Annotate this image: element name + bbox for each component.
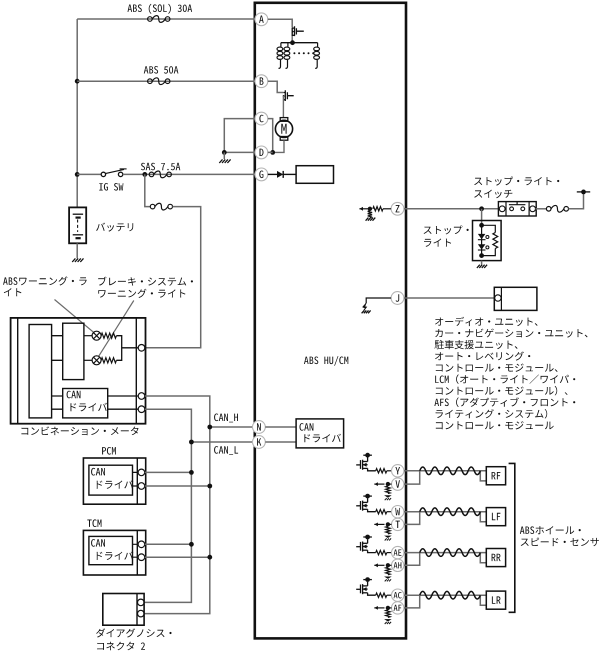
transistor sensor FET AC (356, 584, 367, 594)
terminal Z (391, 202, 404, 215)
CAN driver box in PCM (89, 465, 133, 495)
wire motor minus to D junction (273, 140, 284, 152)
sensor box RF (486, 467, 505, 485)
junction bus / IG SW wire (75, 172, 80, 177)
wire solenoid common rail (281, 42, 318, 44)
resistor sensor AC (376, 593, 387, 597)
junction solenoid rail (290, 40, 295, 45)
resistor Z input (373, 207, 383, 211)
TCM box (83, 530, 145, 575)
label ABS wheel speed sensor ABSホイール・スピード・センサ (520, 526, 581, 534)
bracket ABS wheel speed sensors (509, 463, 515, 612)
wire branch to stop light (481, 209, 483, 226)
stop light box (473, 221, 502, 261)
label audio unit list (435, 317, 537, 326)
wire PCM CAN_H (145, 471, 192, 473)
junction stop light top (479, 223, 484, 228)
arrow internal AF (374, 607, 384, 609)
wire resistor to terminal AC (387, 594, 392, 596)
wire K to CAN driver (265, 441, 296, 443)
meter pin circle CAN_H (138, 393, 145, 400)
arrow internal T (374, 523, 384, 525)
power tap sensor AE (367, 539, 369, 543)
wire battery to ground (76, 243, 78, 258)
label CAN driver (ABS) (300, 423, 314, 431)
control block rectangle (296, 166, 333, 184)
resistor brake warning lamp (101, 358, 116, 363)
twisted pair coil WT (420, 508, 481, 516)
ground arrow V (384, 495, 392, 497)
wire ABS 50A feed to terminal B (77, 80, 255, 82)
TCM right rail (136, 530, 138, 575)
wire CAN_L to terminal K (191, 441, 252, 443)
junction TCM CAN_H (189, 542, 194, 547)
wire terminal C to external ground (224, 119, 255, 153)
ground C/D external (219, 159, 230, 163)
wire FET to resistor AC (368, 593, 376, 595)
terminal AE (392, 546, 404, 558)
wire CAN_L from meter to bus (144, 409, 191, 602)
label TCM (87, 519, 101, 527)
wire resistor to terminal Y (387, 470, 392, 472)
wire J internal (366, 298, 391, 303)
terminal J (391, 292, 404, 305)
terminal W (392, 506, 404, 518)
meter inner block tall (29, 325, 51, 418)
label PCM (102, 447, 116, 455)
resistor ABS warning lamp (101, 333, 116, 338)
lamp ABS warning (84, 335, 92, 337)
wire N to CAN driver (265, 426, 296, 428)
resistor V to ground (386, 486, 390, 494)
bulb stop light 1 (478, 234, 486, 239)
wire to ground below junction (223, 152, 225, 159)
wire J to audio unit box (404, 297, 494, 299)
wire TCM CAN_H (145, 543, 192, 545)
terminal D (255, 146, 268, 159)
junction protection AF (386, 606, 390, 610)
ground stop light (477, 265, 487, 268)
label CAN_L (214, 446, 238, 455)
wire FET to resistor AE (368, 550, 376, 552)
ground Z internal (366, 218, 376, 221)
wire meter CAN driver stubs (52, 396, 63, 409)
junction protection AH (386, 563, 390, 567)
junction bus / ABS 50A wire (75, 79, 80, 84)
ground battery (72, 258, 83, 262)
wire diode to control block (283, 173, 296, 175)
diagnosis connector 2 box (103, 594, 144, 626)
ground arrow AF (384, 619, 392, 621)
motor M (280, 118, 288, 122)
resistor sensor W (376, 510, 387, 514)
label diagnosis connector ダイアグノシス・コネクタ 2 (96, 628, 172, 637)
wire terminal A to solenoid FET (268, 19, 292, 27)
fuse meter 7.5A (150, 203, 172, 210)
terminal N (253, 421, 266, 434)
wire fuse to B+ tap (569, 192, 584, 209)
wire stop light internal rails (482, 225, 496, 255)
label battery バッテリ (96, 223, 133, 232)
label stop light switch ストップ・ライト・スイッチ (474, 177, 559, 186)
label CAN driver (PCM) (91, 468, 105, 476)
battery (69, 207, 86, 243)
solenoid coil n (317, 43, 319, 48)
terminal AH (392, 559, 404, 571)
wire CAN_H to terminal N (210, 426, 253, 428)
terminal K (253, 436, 266, 449)
wire FET to resistor Y (368, 468, 376, 470)
junction external ground node (222, 150, 227, 155)
terminal V (392, 478, 404, 490)
wire B+ feed to fuse ABS (SOL) 30A and terminal A (77, 18, 255, 20)
junction PCM CAN_L (207, 484, 212, 489)
junction SAS branch (142, 172, 147, 177)
label stop light ストップ・ライト (424, 225, 469, 234)
wire bus to IG SW (77, 173, 101, 175)
wire Z internal to resistor (383, 208, 391, 210)
transistor sensor FET AE (356, 542, 367, 552)
label brake system warning light ブレーキ・システム・ワーニング・ライト (98, 277, 193, 286)
label ABS warning light ABSワーニング・ライト (3, 276, 87, 285)
diagnosis connector rail (136, 594, 138, 626)
combination meter box (11, 318, 146, 424)
wire sensor pair cable W (404, 511, 486, 513)
wire FET source to solenoid rail (291, 36, 293, 43)
label SAS 7.5A (141, 163, 180, 171)
leader line ABS warning light to lamp (55, 300, 94, 333)
arrow internal V (374, 483, 384, 485)
wire IG SW to SAS fuse (123, 173, 255, 175)
stop light switch box (498, 202, 536, 216)
label ABS HU/CM (304, 356, 348, 366)
sensor box RR (486, 549, 505, 567)
resistor Z to ground (368, 211, 372, 218)
wire meter block links (52, 336, 63, 361)
power tap sensor Y (367, 457, 369, 461)
leader line brake warning light to lamp (99, 301, 134, 357)
transistor sensor FET Y (356, 460, 367, 470)
junction Z protection (368, 207, 372, 211)
label CAN_H (214, 414, 238, 423)
bulb stop light 2 (478, 244, 486, 249)
diode G (277, 171, 283, 178)
resistor sensor AE (376, 550, 387, 554)
CAN driver box in TCM (89, 536, 133, 564)
label combination meter コンビネーション・メータ (21, 427, 138, 436)
transistor solenoid FET (gate right) (292, 26, 304, 36)
combination meter right rail (135, 318, 137, 424)
wire FET to resistor W (368, 509, 376, 511)
junction PCM CAN_H (189, 470, 194, 475)
stop light switch pins (499, 206, 505, 212)
junction TCM CAN_L (207, 555, 212, 560)
twisted pair coil YV (420, 467, 481, 475)
twisted pair coil ACAF (420, 591, 481, 599)
label CAN driver (meter) (67, 391, 81, 399)
terminal B (255, 75, 268, 88)
PCM box (83, 458, 145, 504)
junction D node motor return (270, 150, 275, 155)
sensor box LR (486, 591, 505, 609)
arrow Z internal (359, 208, 370, 210)
wire stop light to ground (481, 261, 483, 265)
audio unit pin (495, 295, 501, 301)
meter inner block upper (63, 323, 84, 379)
CAN driver box in meter (63, 389, 108, 418)
terminal T (392, 518, 404, 530)
fuse ABS 50A (148, 78, 170, 85)
ABS HU/CM unit box (255, 3, 406, 639)
junction stop light branch (479, 206, 484, 211)
PCM pin circles (133, 472, 139, 486)
wire terminal C to D junction (inside) (268, 119, 273, 153)
arrow internal AH (374, 564, 384, 566)
terminal AC (392, 589, 404, 601)
diagnosis pin circles (138, 599, 145, 606)
switch IG SW (101, 172, 105, 176)
solenoid coil 2 (287, 43, 289, 48)
label ABS (SOL) 30A (128, 4, 193, 14)
fuse ABS (SOL) 30A (148, 16, 170, 23)
wire resistor to terminal AE (387, 552, 392, 554)
transistor motor FET (gate right) (283, 90, 293, 101)
wire lamps common to meter pin (116, 336, 138, 361)
wire TCM CAN_L (145, 556, 210, 558)
junction CAN_L / K (189, 440, 194, 445)
power tap B+ stop light (577, 191, 590, 193)
wire terminal G to diode (268, 173, 277, 175)
junction protection T (386, 522, 390, 526)
wire CAN_H from meter to bus (144, 396, 210, 614)
terminal Y (392, 465, 404, 477)
wire sensor pair cable AE (404, 552, 486, 554)
resistor sensor Y (376, 469, 387, 473)
terminal G (255, 168, 268, 181)
power tap sensor AC (367, 582, 369, 586)
wire FET to motor (282, 96, 284, 117)
label IG SW (99, 183, 123, 191)
wire terminal B to motor FET (268, 81, 283, 92)
ground arrow J internal (362, 303, 366, 308)
label ABS 50A (144, 66, 179, 74)
meter pin circle lamp feed (138, 345, 145, 352)
wire meter fuse to combination meter pin (145, 207, 201, 348)
PCM right rail (136, 458, 138, 504)
resistor T to ground (386, 526, 390, 534)
ground arrow T (384, 536, 392, 538)
wire switch to fuse (536, 208, 547, 210)
junction CAN_H / N (207, 425, 212, 430)
wire SAS junction down to meter fuse (145, 174, 151, 206)
wire resistor to terminal W (387, 511, 392, 513)
junction protection V (386, 482, 390, 486)
TCM pin circles (133, 544, 139, 557)
switch contacts stop light switch (510, 207, 514, 211)
terminal AF (392, 602, 404, 614)
wire terminal D to external ground (224, 151, 255, 153)
wire sensor pair cable AC (404, 594, 486, 596)
lamp brake system warning (84, 359, 92, 361)
audio unit box (494, 287, 537, 310)
CAN driver box in ABS unit (296, 419, 344, 448)
combination meter left rail (17, 318, 19, 424)
wire terminal D to junction (268, 151, 273, 153)
resistor AF to ground (386, 610, 390, 618)
wire PCM CAN_L (145, 485, 210, 487)
fuse SAS 7.5A (149, 171, 171, 178)
transistor sensor FET W (356, 501, 367, 511)
junction stop light bottom (479, 253, 484, 258)
wire Z to stop light switch (404, 208, 499, 210)
terminal A (255, 13, 268, 26)
fuse stop light (546, 205, 568, 212)
ground arrow AH (384, 577, 392, 579)
wire sensor pair cable Y (404, 470, 486, 472)
label CAN driver (TCM) (91, 539, 105, 547)
twisted pair coil AEAH (420, 549, 481, 557)
dotted continuation solenoids (293, 52, 295, 54)
power tap sensor W (367, 498, 369, 502)
sensor box LF (486, 508, 505, 526)
solenoid coil 1 (280, 43, 282, 48)
wire left vertical bus from fuse line down to battery (76, 19, 78, 207)
meter pin circle CAN_L (138, 406, 145, 413)
terminal C (255, 112, 268, 125)
resistor AH to ground (386, 567, 390, 575)
resistor stop light (493, 233, 498, 249)
